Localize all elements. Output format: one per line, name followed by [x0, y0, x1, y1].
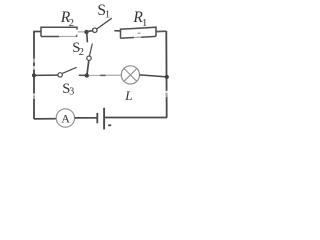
svg-text:A: A [61, 112, 70, 126]
label minus [108, 124, 111, 126]
svg-text:2: 2 [79, 47, 84, 58]
svg-text:1: 1 [142, 18, 147, 29]
label S3 [62, 81, 74, 97]
wire right vertical [165, 31, 167, 118]
label S1 [97, 2, 110, 21]
switch S3 [58, 67, 85, 77]
wire top-left to R2 [33, 31, 41, 33]
wire ammeter to battery [75, 117, 97, 119]
wire battery to bottom-right corner [105, 117, 167, 119]
svg-text:3: 3 [69, 87, 74, 98]
wire left vertical [33, 31, 35, 119]
wire left vertical faded patches [33, 59, 35, 63]
wire R2 to node [78, 31, 85, 33]
ammeter A [56, 109, 74, 127]
wire bottom-left to ammeter [34, 118, 57, 120]
svg-text:1: 1 [105, 10, 110, 21]
battery cell (short plate) [96, 113, 98, 123]
wire lamp to right vertical [140, 75, 167, 77]
switch S1 [93, 18, 121, 32]
node junction middle-right [165, 75, 169, 79]
label S2 [72, 40, 84, 58]
wire node to S1 [87, 30, 93, 33]
wire node to lamp (faded) [89, 74, 122, 76]
resistor R1 [121, 27, 157, 38]
label R2 [60, 9, 74, 29]
svg-text:2: 2 [69, 18, 74, 29]
wire middle-left to S3 [34, 74, 58, 76]
svg-text:L: L [124, 88, 132, 103]
battery cell (long plate) [103, 108, 105, 130]
switch S2 [87, 32, 93, 75]
node junction middle-left [32, 73, 36, 77]
lamp L [121, 66, 139, 84]
label R1 [132, 9, 147, 29]
resistor R2 [41, 27, 77, 36]
node junction top (S2 tap) [84, 30, 88, 34]
node junction middle (below S2) [85, 73, 89, 77]
wire dark dash on faded segment [100, 74, 105, 76]
wire R1 to top-right corner [156, 30, 166, 32]
wire right vertical faded patches [166, 91, 168, 93]
